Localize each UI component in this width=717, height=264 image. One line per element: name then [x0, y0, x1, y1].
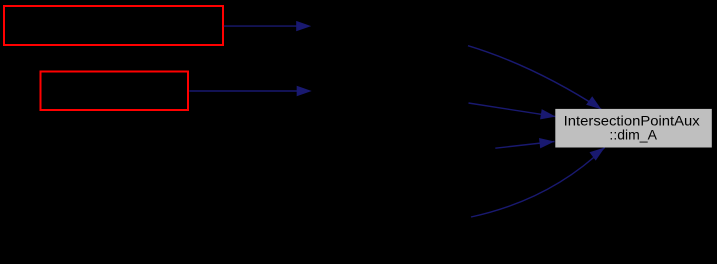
node caller-1 (red box, truncated label) [4, 6, 223, 45]
edge caller-1 to mid-1 (arrow) [224, 21, 311, 31]
edge mid-2 to dim_A (arrow) [469, 103, 556, 119]
edge mid-3 to dim_A (arrow) [495, 138, 554, 148]
node IntersectionPointAux::dim_A (gray box) [555, 109, 712, 148]
svg-text:::dim_A: ::dim_A [609, 126, 657, 142]
edge mid-4 to dim_A (curved arrow) [471, 148, 605, 218]
edge mid-1 to dim_A (curved arrow) [468, 46, 601, 110]
node caller-2 (red box, truncated label) [41, 72, 189, 111]
edge caller-2 to mid-2 (arrow) [189, 86, 311, 96]
